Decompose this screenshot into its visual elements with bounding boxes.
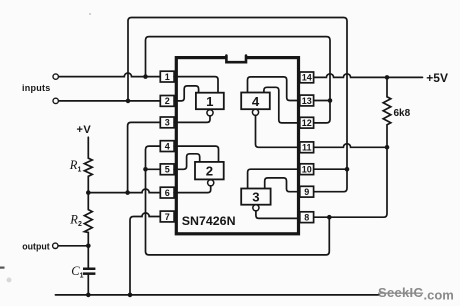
pin 1 box: [160, 71, 174, 82]
svg-text:+5V: +5V: [426, 71, 448, 85]
wire pin 5 to gate 2 input: [174, 154, 200, 170]
svg-text:R2: R2: [69, 212, 82, 228]
gate U1d box: [241, 93, 270, 110]
node R2 bottom / output junction: [86, 244, 91, 249]
pin 13 box: [300, 95, 314, 106]
svg-text:2: 2: [206, 163, 213, 178]
pin 14 box: [300, 72, 314, 83]
IC U1 SN7426N body: [176, 58, 298, 234]
svg-text:14: 14: [302, 73, 312, 83]
scan speck top-left: [89, 13, 91, 15]
wire pin 10: [313, 168, 347, 170]
svg-text:7: 7: [165, 212, 170, 222]
wire pin 2 to gate 1 input: [174, 86, 199, 101]
capacitor C1: [87, 246, 89, 267]
svg-text:output: output: [22, 242, 49, 252]
node pin 8 junction: [327, 215, 332, 220]
svg-text:8: 8: [304, 213, 309, 223]
svg-text:+V: +V: [77, 124, 92, 136]
terminal input A: [53, 74, 58, 79]
wire pin 5 stub: [146, 168, 161, 170]
wire pin 8 to feedback node: [313, 147, 387, 217]
wire pin 14 to +5V (hops over both rails): [313, 74, 422, 78]
pin 8 box: [300, 212, 314, 223]
gate U1b box: [195, 162, 224, 180]
node pin10-rail junction: [345, 167, 350, 172]
pin 4 box: [160, 141, 174, 152]
pin 11 box: [300, 142, 314, 153]
svg-text:.com: .com: [424, 287, 454, 302]
pin 9 box: [300, 186, 314, 197]
wire input B to pin 2: [58, 100, 160, 102]
wire outer rail: pin2 node up over top to pins 10 and 9: [128, 18, 347, 192]
svg-text:4: 4: [165, 141, 170, 151]
terminal output: [53, 243, 58, 248]
resistor R1: [84, 137, 92, 192]
node pin7 ground junction: [128, 293, 133, 298]
node pin13-rail junction: [328, 98, 333, 103]
svg-text:SeekIC: SeekIC: [378, 285, 423, 300]
scan mark left edge: [0, 267, 5, 269]
wire pin 1 to gate 1 input: [174, 77, 218, 93]
node 6k8 bottom / pin 11 junction: [385, 145, 390, 150]
pin 12 box: [300, 117, 314, 128]
ground rail: [55, 294, 379, 296]
pin 2 box: [160, 96, 174, 107]
wire gate 3 output to pin 8: [256, 211, 300, 219]
gate U1d output bubble: [252, 109, 258, 115]
pin 5 box: [160, 164, 174, 175]
gate U1c output bubble: [253, 205, 259, 211]
gate U1c box: [241, 189, 270, 205]
wire R1-R2 node to pin 6 (hop over pin4/5 vertical): [88, 189, 160, 193]
node pin3 vertical joins wire6: [125, 190, 130, 195]
C1 bottom plate: [83, 272, 95, 275]
wire gate 2 output to pin 6: [174, 186, 211, 193]
wire pin 11 to feedback node (hop over outer rail vertical): [313, 144, 387, 148]
pin 10 box: [300, 164, 314, 175]
wire inner rail: pin1 node over top to pins 13 and 12: [146, 37, 331, 123]
svg-text:R1: R1: [69, 158, 82, 174]
node pin2-rail junction: [126, 99, 131, 104]
resistor R2: [84, 193, 92, 246]
wire gate 4 output to pin 11: [256, 115, 300, 147]
svg-text:C1: C1: [71, 264, 83, 280]
wire pin 7 to ground (hop over pin4/5 vertical): [130, 213, 160, 295]
wire pin 3 down to R1-R2 node: [128, 122, 161, 192]
gate U1a output bubble: [207, 110, 213, 116]
wire pin 10 to gate 3 input: [248, 169, 300, 188]
node pin5 junction: [143, 167, 148, 172]
pin 7 box: [160, 211, 174, 222]
wire pin 4 to gate 2 input: [174, 146, 218, 162]
node C1 ground junction: [86, 293, 91, 298]
gate U1a box: [196, 93, 224, 110]
pin 3 box: [160, 117, 174, 128]
svg-text:SN7426N: SN7426N: [182, 214, 236, 228]
wire pin 9 to gate 3 input: [265, 178, 300, 192]
svg-text:5: 5: [165, 165, 170, 175]
wire pin 13: [313, 100, 330, 102]
wire output: [58, 245, 88, 247]
svg-text:13: 13: [302, 96, 312, 106]
svg-text:3: 3: [252, 189, 259, 204]
wire pin 13 to gate 4 input: [248, 77, 300, 101]
svg-text:4: 4: [252, 94, 260, 109]
scan smudge left: [7, 278, 12, 283]
svg-text:9: 9: [304, 187, 309, 197]
svg-text:1: 1: [165, 72, 170, 82]
wire pin 12 to gate 4 input: [264, 87, 300, 123]
svg-text:6k8: 6k8: [394, 108, 411, 119]
resistor 6k8: [383, 77, 391, 147]
svg-text:6: 6: [165, 188, 170, 198]
svg-text:2: 2: [165, 96, 170, 106]
gate U1b output bubble: [208, 180, 214, 186]
node pin1-rail junction: [143, 74, 148, 79]
terminal input B: [53, 98, 58, 103]
node 6k8 top junction: [385, 75, 390, 80]
IC notch: [226, 56, 246, 63]
svg-text:inputs: inputs: [22, 83, 51, 93]
wire input A to pin 1 (hop over outer rail vertical): [58, 73, 160, 77]
svg-text:3: 3: [165, 118, 170, 128]
svg-text:12: 12: [302, 118, 312, 128]
wire gate 1 output to pin 3: [174, 116, 210, 123]
svg-text:1: 1: [206, 94, 213, 109]
svg-text:11: 11: [302, 143, 312, 153]
node R1 bottom junction: [86, 190, 91, 195]
C1 top plate: [83, 268, 95, 271]
pin 6 box: [160, 187, 174, 198]
wire pins 4,5 chain under IC to pin 8 node: [146, 146, 330, 255]
svg-text:10: 10: [302, 165, 312, 175]
